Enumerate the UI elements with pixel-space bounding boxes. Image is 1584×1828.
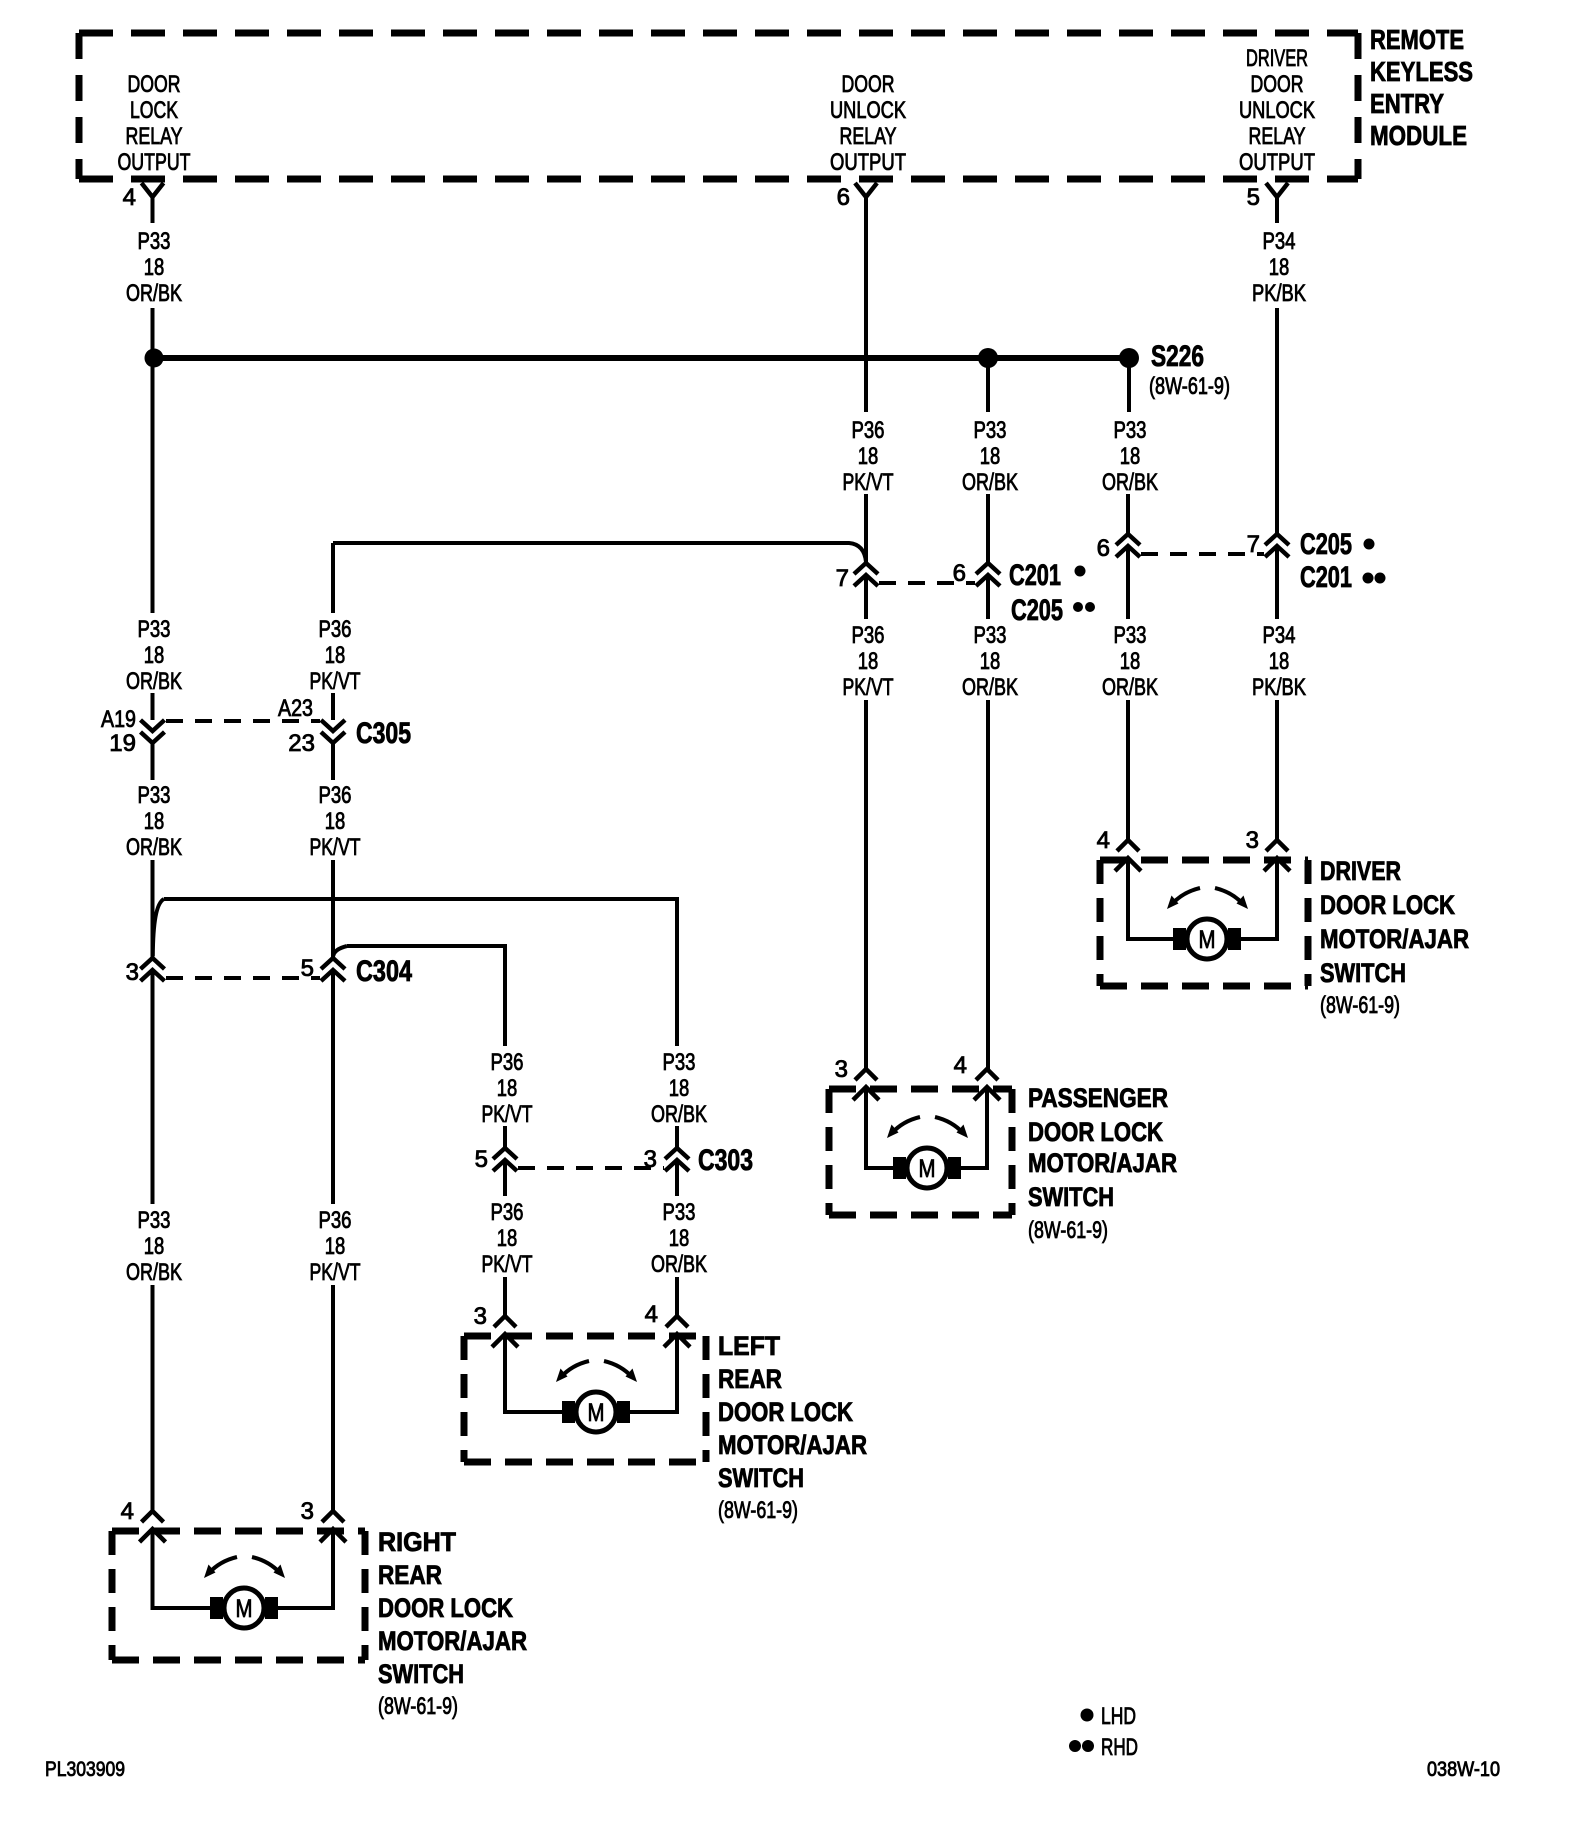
- svg-text:C201: C201: [1300, 561, 1352, 594]
- wire label to C201 pin 7: [864, 494, 868, 563]
- svg-text:3: 3: [474, 1303, 487, 1330]
- svg-text:P36: P36: [319, 782, 352, 809]
- svg-text:REAR: REAR: [718, 1364, 782, 1394]
- svg-text:RHD: RHD: [1101, 1734, 1138, 1761]
- sheet number 038W-10: [1427, 1758, 1500, 1781]
- wire label P33 18 OR/BK (pin 4 output): [126, 228, 182, 307]
- motor M3 left rear door lock: [562, 1392, 630, 1432]
- svg-text:18: 18: [980, 443, 1001, 470]
- rotation arrows (passenger motor): [887, 1117, 968, 1138]
- junction dot at splice S226 branch 1: [145, 349, 164, 368]
- RHD bullets for C201 right: [1363, 573, 1386, 584]
- pin 3 number (driver motor): [1246, 827, 1259, 854]
- pin 4 connector symbol: [142, 183, 164, 223]
- connector C303 pin 5 symbol: [493, 1148, 517, 1171]
- wire splice to label (col 1128): [1127, 358, 1131, 412]
- svg-text:18: 18: [1120, 648, 1141, 675]
- svg-text:DOOR: DOOR: [842, 71, 895, 98]
- svg-text:(8W-61-9): (8W-61-9): [378, 1693, 458, 1720]
- splice name S226: [1151, 340, 1204, 373]
- svg-text:DOOR LOCK: DOOR LOCK: [378, 1593, 513, 1623]
- svg-text:18: 18: [1269, 254, 1290, 281]
- svg-text:ENTRY: ENTRY: [1370, 88, 1444, 119]
- svg-text:18: 18: [144, 642, 165, 669]
- svg-text:4: 4: [954, 1052, 967, 1079]
- svg-text:C303: C303: [698, 1144, 753, 1177]
- svg-text:P36: P36: [852, 417, 885, 444]
- passenger motor pin 3 connector symbol: [853, 1069, 879, 1100]
- module label REMOTE KEYLESS ENTRY MODULE: [1370, 24, 1473, 151]
- wire label to C303 pin 3: [675, 1126, 679, 1148]
- svg-text:5: 5: [301, 955, 314, 982]
- left rear door lock motor/ajar switch box: [464, 1336, 706, 1462]
- svg-text:OR/BK: OR/BK: [126, 834, 182, 861]
- svg-text:23: 23: [288, 730, 315, 757]
- wire label to C205 pin 7: [1275, 308, 1279, 534]
- wire label P36 18 PK/VT (to right rear motor): [310, 1207, 361, 1286]
- wire label to driver motor pin 4: [1126, 700, 1130, 840]
- pin 3 number (C304): [126, 959, 139, 986]
- svg-text:OR/BK: OR/BK: [126, 280, 182, 307]
- svg-text:7: 7: [1247, 531, 1260, 558]
- pin 4 number (driver motor): [1097, 827, 1110, 854]
- svg-text:DOOR LOCK: DOOR LOCK: [1028, 1117, 1163, 1147]
- svg-text:P33: P33: [1114, 622, 1147, 649]
- svg-text:4: 4: [123, 184, 136, 211]
- wire label to left rear motor pin 3: [503, 1277, 507, 1316]
- connector C205 pin 6 symbol: [1116, 534, 1140, 557]
- svg-text:C205: C205: [1300, 528, 1352, 561]
- connector C304 inline dashes: [166, 976, 320, 980]
- wire label P33 18 OR/BK (to driver motor): [1102, 622, 1158, 701]
- wire label P36 18 PK/VT (above C303): [482, 1049, 533, 1128]
- wire branch to C303 pin 3 (horizontal and down): [164, 899, 677, 1046]
- svg-text:(8W-61-9): (8W-61-9): [718, 1497, 798, 1524]
- rotation arrows (left rear motor): [556, 1361, 637, 1382]
- driver motor internal wiring: [1128, 858, 1277, 939]
- wire label to C304 pin 3: [151, 860, 155, 958]
- svg-text:18: 18: [669, 1075, 690, 1102]
- motor M4 right rear door lock: [210, 1588, 278, 1628]
- wire label P33 18 OR/BK (below C305): [126, 782, 182, 861]
- svg-text:OR/BK: OR/BK: [962, 469, 1018, 496]
- svg-text:MOTOR/AJAR: MOTOR/AJAR: [378, 1626, 527, 1656]
- pin 23 number: [288, 730, 315, 757]
- svg-text:OUTPUT: OUTPUT: [118, 149, 191, 176]
- svg-text:038W-10: 038W-10: [1427, 1758, 1500, 1781]
- pin 5 number: [1247, 184, 1260, 211]
- driver motor pin 4 connector symbol: [1115, 840, 1141, 871]
- svg-text:(8W-61-9): (8W-61-9): [1320, 992, 1400, 1019]
- junction dot at splice S226 branch 3: [1119, 348, 1139, 368]
- svg-text:3: 3: [126, 959, 139, 986]
- svg-text:M: M: [919, 1155, 936, 1183]
- svg-text:DOOR: DOOR: [1251, 71, 1304, 98]
- connector C303 inline dashes: [518, 1166, 664, 1170]
- wire C305 pin 23 to label: [331, 743, 335, 780]
- svg-text:6: 6: [953, 560, 966, 587]
- svg-text:18: 18: [325, 642, 346, 669]
- pin 6 number (C201): [953, 560, 966, 587]
- pin 7 number (C201): [836, 565, 849, 592]
- wire label P33 18 OR/BK (to passenger motor): [962, 622, 1018, 701]
- wire label P33 18 OR/BK (above C305): [126, 616, 182, 695]
- wire label P33 18 OR/BK (splice to C201): [962, 417, 1018, 496]
- wire label P34 18 PK/BK (to driver motor): [1252, 622, 1306, 701]
- splice reference (8W-61-9): [1149, 373, 1230, 400]
- wire C205 pin 6 to label: [1126, 546, 1130, 619]
- wire C201 pin7 branch horizontal: [333, 543, 866, 562]
- wire branch curve to C303 feed (col 333): [333, 946, 347, 956]
- svg-text:PK/VT: PK/VT: [482, 1101, 533, 1128]
- svg-text:C305: C305: [356, 717, 411, 750]
- connector name C304: [356, 955, 412, 988]
- svg-text:P36: P36: [319, 1207, 352, 1234]
- right rear motor internal wiring: [153, 1529, 334, 1608]
- wire pin 6 to label: [864, 223, 868, 412]
- wire label P33 18 OR/BK (splice to C205): [1102, 417, 1158, 496]
- wire label to C201 pin 6: [986, 494, 990, 563]
- svg-text:A19: A19: [101, 706, 136, 733]
- module: remote keyless entry module (dashed outline): [79, 33, 1358, 179]
- pin 3 number (passenger motor): [835, 1056, 848, 1083]
- wire splice to label (col 152): [151, 367, 155, 613]
- svg-text:DOOR LOCK: DOOR LOCK: [718, 1397, 853, 1427]
- passenger motor internal wiring: [866, 1087, 987, 1168]
- svg-text:PK/VT: PK/VT: [310, 668, 361, 695]
- svg-text:PK/BK: PK/BK: [1252, 280, 1306, 307]
- wire label P36 18 PK/VT (below C305): [310, 782, 361, 861]
- svg-text:REAR: REAR: [378, 1560, 442, 1590]
- wire S226 splice bus: [154, 355, 1129, 361]
- svg-text:OR/BK: OR/BK: [651, 1101, 707, 1128]
- svg-text:18: 18: [497, 1225, 518, 1252]
- wire label P34 18 PK/BK (pin 5 output): [1252, 228, 1306, 307]
- svg-text:18: 18: [1269, 648, 1290, 675]
- legend LHD bullet: [1081, 1709, 1094, 1722]
- svg-text:P33: P33: [663, 1049, 696, 1076]
- svg-text:3: 3: [1246, 827, 1259, 854]
- legend LHD text: [1101, 1703, 1136, 1730]
- passenger door lock motor/ajar switch box: [829, 1089, 1012, 1215]
- wire label to right rear motor pin 4: [151, 1285, 155, 1511]
- svg-text:4: 4: [645, 1301, 658, 1328]
- wire label P33 18 OR/BK (to left rear motor): [651, 1199, 707, 1278]
- svg-text:4: 4: [121, 1498, 134, 1525]
- motor M1 driver door lock: [1173, 919, 1241, 959]
- junction dot at splice S226 branch 2: [978, 348, 998, 368]
- svg-text:MOTOR/AJAR: MOTOR/AJAR: [1320, 924, 1469, 954]
- driver motor pin 3 connector symbol: [1264, 840, 1290, 871]
- svg-text:18: 18: [980, 648, 1001, 675]
- svg-text:P33: P33: [138, 616, 171, 643]
- svg-text:KEYLESS: KEYLESS: [1370, 56, 1473, 87]
- sheet number PL303909: [45, 1758, 125, 1781]
- svg-text:LOCK: LOCK: [130, 97, 178, 124]
- svg-text:P34: P34: [1263, 228, 1296, 255]
- wire label to C304 pin 5: [331, 860, 335, 958]
- wire label to passenger motor pin 3: [864, 700, 868, 1069]
- wire label P36 18 PK/VT (above C305): [310, 616, 361, 695]
- pin 19 number: [109, 730, 136, 757]
- connector C305 pin A23/23 symbol: [321, 720, 345, 743]
- wire label to driver motor pin 3: [1275, 700, 1279, 840]
- left rear motor pin 3 connector symbol: [492, 1316, 518, 1347]
- pin 4 number (right rear motor): [121, 1498, 134, 1525]
- svg-text:DOOR: DOOR: [128, 71, 181, 98]
- LHD bullet for C205 right: [1364, 539, 1375, 550]
- passenger motor pin 4 connector symbol: [974, 1069, 1000, 1100]
- pin 3 number (left rear motor): [474, 1303, 487, 1330]
- wire C201 pin 7 to label: [864, 575, 868, 619]
- wire C303 pin 5 to label: [503, 1160, 507, 1196]
- connector C304 pin 5 symbol: [321, 958, 345, 981]
- label LEFT REAR DOOR LOCK MOTOR/AJAR SWITCH: [718, 1331, 867, 1524]
- left rear motor pin 4 connector symbol: [664, 1316, 690, 1347]
- svg-text:OR/BK: OR/BK: [962, 674, 1018, 701]
- svg-text:P34: P34: [1263, 622, 1296, 649]
- svg-text:6: 6: [837, 184, 850, 211]
- rotation arrows (driver motor): [1167, 888, 1248, 909]
- svg-text:18: 18: [325, 1233, 346, 1260]
- right rear door lock motor/ajar switch box: [112, 1531, 365, 1660]
- pin 4 number (passenger motor): [954, 1052, 967, 1079]
- svg-text:M: M: [588, 1399, 605, 1427]
- svg-text:3: 3: [301, 1498, 314, 1525]
- svg-text:5: 5: [475, 1146, 488, 1173]
- connector name C201 (LHD): [1009, 559, 1061, 592]
- connector C303 pin 3 symbol: [665, 1148, 689, 1171]
- wire label to C303 pin 5: [503, 1126, 507, 1148]
- pin 6 number (C205): [1097, 535, 1110, 562]
- svg-text:7: 7: [836, 565, 849, 592]
- svg-text:REMOTE: REMOTE: [1370, 24, 1464, 55]
- svg-text:6: 6: [1097, 535, 1110, 562]
- svg-text:(8W-61-9): (8W-61-9): [1028, 1217, 1108, 1244]
- pin 6 connector symbol: [855, 183, 877, 223]
- connector name C205 (RHD): [1011, 594, 1063, 627]
- module pin label DOOR UNLOCK RELAY OUTPUT: [830, 71, 906, 176]
- connector C205 inline dashes: [1141, 552, 1264, 556]
- svg-text:19: 19: [109, 730, 136, 757]
- motor M2 passenger door lock: [893, 1148, 961, 1188]
- wire C205 pin 7 to label: [1275, 546, 1279, 619]
- wire C303 pin 3 to label: [675, 1160, 679, 1196]
- svg-text:P36: P36: [319, 616, 352, 643]
- pin 3 number (right rear motor): [301, 1498, 314, 1525]
- svg-text:P33: P33: [138, 228, 171, 255]
- wire C304 pin 5 to label: [331, 970, 335, 1204]
- svg-text:4: 4: [1097, 827, 1110, 854]
- wire branch down to C305 pin A23: [331, 543, 335, 613]
- wire label P36 18 PK/VT (to passenger motor): [843, 622, 894, 701]
- svg-text:SWITCH: SWITCH: [1320, 958, 1406, 988]
- svg-text:(8W-61-9): (8W-61-9): [1149, 373, 1230, 400]
- svg-text:PASSENGER: PASSENGER: [1028, 1083, 1168, 1113]
- svg-text:PL303909: PL303909: [45, 1758, 125, 1781]
- wire C305 pin 19 to label: [151, 743, 155, 780]
- svg-text:MOTOR/AJAR: MOTOR/AJAR: [718, 1430, 867, 1460]
- wire label to left rear motor pin 4: [675, 1277, 679, 1316]
- pin 6 number: [837, 184, 850, 211]
- svg-text:3: 3: [835, 1056, 848, 1083]
- wire C304 pin 3 to label: [151, 970, 155, 1204]
- connector C205 pin 7 symbol: [1265, 534, 1289, 557]
- svg-text:C201: C201: [1009, 559, 1061, 592]
- svg-text:OR/BK: OR/BK: [126, 1259, 182, 1286]
- svg-text:OR/BK: OR/BK: [1102, 469, 1158, 496]
- label RIGHT REAR DOOR LOCK MOTOR/AJAR SWITCH: [378, 1527, 527, 1720]
- svg-text:RELAY: RELAY: [126, 123, 183, 150]
- wire label P33 18 OR/BK (to right rear motor): [126, 1207, 182, 1286]
- pin 7 number (C205): [1247, 531, 1260, 558]
- svg-text:DRIVER: DRIVER: [1320, 856, 1401, 886]
- svg-text:PK/VT: PK/VT: [843, 674, 894, 701]
- svg-text:P33: P33: [663, 1199, 696, 1226]
- wire label to C305 pin 19: [151, 693, 155, 720]
- wire label to C205 pin 6: [1126, 494, 1130, 534]
- rotation arrows (right rear motor): [204, 1557, 285, 1578]
- svg-text:RELAY: RELAY: [1249, 123, 1306, 150]
- svg-text:5: 5: [1247, 184, 1260, 211]
- wire label to passenger motor pin 4: [986, 700, 990, 1069]
- pin 5 number (C303): [475, 1146, 488, 1173]
- svg-text:S226: S226: [1151, 340, 1204, 373]
- svg-text:OR/BK: OR/BK: [1102, 674, 1158, 701]
- svg-text:18: 18: [858, 443, 879, 470]
- wire C201 pin 6 to label: [986, 575, 990, 619]
- connector name C305: [356, 717, 411, 750]
- connector C201 inline dashes: [879, 581, 975, 585]
- pin 4 number: [123, 184, 136, 211]
- svg-text:PK/VT: PK/VT: [482, 1251, 533, 1278]
- wire label P33 18 OR/BK (above C303): [651, 1049, 707, 1128]
- driver door lock motor/ajar switch box: [1100, 860, 1308, 986]
- pin 5 connector symbol: [1266, 183, 1288, 223]
- svg-text:18: 18: [497, 1075, 518, 1102]
- svg-text:SWITCH: SWITCH: [1028, 1182, 1114, 1212]
- connector C304 pin 3 symbol: [141, 958, 165, 981]
- svg-text:C205: C205: [1011, 594, 1063, 627]
- connector name C205 (LHD right): [1300, 528, 1352, 561]
- svg-text:UNLOCK: UNLOCK: [1239, 97, 1315, 124]
- wire branch to C303 pin 5 (horizontal and down): [347, 946, 505, 1046]
- svg-text:M: M: [236, 1595, 253, 1623]
- left rear motor internal wiring: [505, 1334, 677, 1412]
- svg-text:RIGHT: RIGHT: [378, 1527, 456, 1557]
- connector C201 pin 7 symbol: [854, 563, 878, 586]
- svg-text:M: M: [1199, 926, 1216, 954]
- svg-text:MODULE: MODULE: [1370, 120, 1467, 151]
- label DRIVER DOOR LOCK MOTOR/AJAR SWITCH: [1320, 856, 1469, 1019]
- svg-text:P36: P36: [491, 1049, 524, 1076]
- svg-text:A23: A23: [278, 695, 313, 722]
- svg-text:3: 3: [644, 1146, 657, 1173]
- svg-text:UNLOCK: UNLOCK: [830, 97, 906, 124]
- pin 4 number (left rear motor): [645, 1301, 658, 1328]
- label PASSENGER DOOR LOCK MOTOR/AJAR SWITCH: [1028, 1083, 1177, 1244]
- svg-text:SWITCH: SWITCH: [378, 1659, 464, 1689]
- svg-text:C304: C304: [356, 955, 412, 988]
- svg-text:LEFT: LEFT: [718, 1331, 780, 1361]
- wire splice to label (col 988): [986, 358, 990, 412]
- svg-text:P33: P33: [974, 417, 1007, 444]
- svg-text:OR/BK: OR/BK: [126, 668, 182, 695]
- connector C305 pin A19/19 symbol: [141, 720, 165, 743]
- legend RHD text: [1101, 1734, 1138, 1761]
- svg-text:18: 18: [669, 1225, 690, 1252]
- pin 5 number (C304): [301, 955, 314, 982]
- svg-text:P33: P33: [974, 622, 1007, 649]
- svg-text:LHD: LHD: [1101, 1703, 1136, 1730]
- wire label P36 18 PK/VT (pin 6 output): [843, 417, 894, 496]
- svg-text:OR/BK: OR/BK: [651, 1251, 707, 1278]
- right rear motor pin 3 connector symbol: [320, 1511, 346, 1542]
- svg-text:18: 18: [1120, 443, 1141, 470]
- svg-text:PK/VT: PK/VT: [843, 469, 894, 496]
- wire label P36 18 PK/VT (to left rear motor): [482, 1199, 533, 1278]
- module pin label DOOR LOCK RELAY OUTPUT: [118, 71, 191, 176]
- LHD bullet for C201: [1075, 566, 1086, 577]
- svg-text:PK/VT: PK/VT: [310, 1259, 361, 1286]
- RHD bullets for C205: [1073, 602, 1095, 612]
- svg-text:P33: P33: [138, 1207, 171, 1234]
- svg-text:P33: P33: [1114, 417, 1147, 444]
- pin A23 number: [278, 695, 313, 722]
- svg-text:RELAY: RELAY: [840, 123, 897, 150]
- wire label to C305 pin 23: [331, 693, 335, 720]
- svg-text:MOTOR/AJAR: MOTOR/AJAR: [1028, 1148, 1177, 1178]
- svg-text:18: 18: [325, 808, 346, 835]
- svg-text:OUTPUT: OUTPUT: [830, 149, 906, 176]
- right rear motor pin 4 connector symbol: [140, 1511, 166, 1542]
- connector C201 pin 6 symbol: [976, 563, 1000, 586]
- wire label to right rear motor pin 3: [331, 1285, 335, 1511]
- svg-text:P36: P36: [491, 1199, 524, 1226]
- legend RHD bullets: [1069, 1740, 1094, 1752]
- svg-text:P33: P33: [138, 782, 171, 809]
- svg-text:SWITCH: SWITCH: [718, 1463, 804, 1493]
- svg-text:DRIVER: DRIVER: [1246, 45, 1308, 72]
- svg-text:PK/VT: PK/VT: [310, 834, 361, 861]
- svg-text:18: 18: [858, 648, 879, 675]
- connector C305 inline dashes: [166, 719, 320, 723]
- pin 3 number (C303): [644, 1146, 657, 1173]
- connector name C201 (RHD right): [1300, 561, 1352, 594]
- svg-text:PK/BK: PK/BK: [1252, 674, 1306, 701]
- svg-text:OUTPUT: OUTPUT: [1239, 149, 1315, 176]
- svg-text:18: 18: [144, 1233, 165, 1260]
- svg-text:18: 18: [144, 808, 165, 835]
- svg-text:P36: P36: [852, 622, 885, 649]
- connector name C303: [698, 1144, 753, 1177]
- svg-text:DOOR LOCK: DOOR LOCK: [1320, 890, 1455, 920]
- pin A19 number: [101, 706, 136, 733]
- wire pin4 label to splice: [151, 308, 155, 350]
- svg-text:18: 18: [144, 254, 165, 281]
- module pin label DRIVER DOOR UNLOCK RELAY OUTPUT: [1239, 45, 1315, 176]
- wire branch curve to C303 feed: [153, 899, 164, 956]
